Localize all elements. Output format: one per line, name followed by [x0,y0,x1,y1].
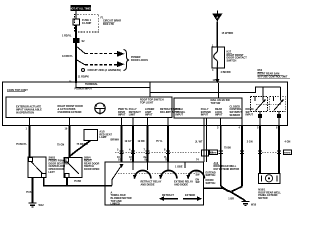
svg-text:19 RD: 19 RD [138,140,145,143]
wire from power to fuse [75,11,77,19]
label S68/4 [84,156,99,171]
double wire col 5 [195,126,214,162]
connector triangle A [212,11,222,22]
svg-text:75 BK/RD: 75 BK/RD [77,143,89,146]
label M10 [258,189,281,200]
wire lamp to switch [69,140,90,156]
inner box A [6,97,172,118]
svg-text:4 GN: 4 GN [285,141,291,144]
control unit outer box [3,82,288,126]
roof box text retract relay [141,181,162,187]
svg-text:OVERRIDE EXTEND: OVERRIDE EXTEND [58,111,82,114]
text right of roof box [206,171,216,185]
motor M10 box [258,173,280,183]
svg-text:POWER INPUT: POWER INPUT [75,88,93,91]
roof box text bottom left [111,191,132,205]
svg-text:75 YL: 75 YL [156,140,163,143]
wire col 2 [125,126,134,162]
svg-text:AND DIODE: AND DIODE [174,183,188,186]
switch S1 dashed [251,97,268,112]
roof box text extend relay [174,181,193,187]
wire branch arrow 2 [76,60,125,68]
brace power door locks [124,50,149,71]
arrow extend [183,194,202,201]
ground W12 [29,203,45,207]
fuse F1 dashed box [73,14,99,32]
svg-text:INPUT: INPUT [145,114,153,117]
wire right 2 [240,126,253,187]
link dashed in roof box [118,172,196,174]
label K27 right front door contact switch [227,51,248,63]
pin label col 1 [118,108,128,117]
wire to door switch S68/3 [16,126,30,158]
wire branch arrow 1 [76,46,125,57]
svg-text:75 BR: 75 BR [74,180,81,183]
svg-text:W12: W12 [39,204,45,207]
dashed link right connector [262,151,277,153]
wire col 4 [156,126,168,162]
svg-text:1 OBE: 1 OBE [175,166,183,169]
svg-text:SWITCH: SWITCH [206,182,216,185]
svg-text:11 RD/PK: 11 RD/PK [78,75,89,78]
label N52 right rear control unit [258,69,291,78]
wire W1 down from fuse [75,25,77,83]
wire right 4 [277,126,292,174]
box B text rear lock [215,108,223,117]
pin label col 3 [145,108,154,117]
inner box B [174,98,242,118]
svg-text:13 RD/YL: 13 RD/YL [62,55,73,58]
svg-text:DOOR OPEN: DOOR OPEN [84,168,99,171]
svg-text:INPUT: INPUT [118,114,126,117]
label S68/3 [49,156,69,173]
svg-text:BR/WH: BR/WH [111,139,120,142]
svg-text:10 AMP: 10 AMP [82,21,92,25]
svg-text:INPUT: INPUT [246,114,254,117]
svg-text:HOT AT ALL TIMES: HOT AT ALL TIMES [70,7,92,10]
mechanical link dashed [256,103,281,105]
arrow retract [159,194,178,201]
svg-text:1 BR: 1 BR [228,197,234,200]
relay arc 3 [187,170,205,179]
svg-text:75 BR: 75 BR [26,191,33,194]
wire from switch S1 left [241,111,243,126]
box B text fully extend [201,108,211,117]
svg-text:EXTEND: EXTEND [185,194,195,197]
svg-text:LIMIT: LIMIT [129,114,136,117]
box A text right front door [58,105,83,114]
svg-text:1 RD/YL: 1 RD/YL [62,35,72,38]
door switch S68/4 [64,158,82,178]
svg-text:75 GN: 75 GN [57,144,64,147]
wire right 1 [210,126,232,187]
svg-text:SWITCH: SWITCH [206,174,216,177]
svg-text:SWITCH: SWITCH [227,59,237,62]
svg-text:4 BK/RD: 4 BK/RD [221,71,231,74]
power label HOT AT ALL TIMES [70,5,92,11]
svg-text:DOOR LOCKS: DOOR LOCKS [131,59,148,62]
svg-text:JL WT: JL WT [195,141,203,144]
svg-text:75 BK/YL: 75 BK/YL [16,143,27,146]
svg-text:TERMINAL: TERMINAL [85,83,98,86]
junction to ground [204,186,246,202]
wire to door switch S68/4 [57,126,69,158]
wire right 3 [258,126,262,174]
svg-text:LEFT: LEFT [49,171,56,174]
door switch S68/3 [28,157,46,178]
switch S2 dashed [270,97,286,112]
svg-text:TOP SW: TOP SW [211,102,221,105]
wire switches to box [43,178,112,186]
svg-text:MOTOR: MOTOR [258,197,267,200]
svg-text:CIRCUIT 2000 (A HARNESS): CIRCUIT 2000 (A HARNESS) [88,69,122,72]
svg-text:CONV TOP CONT: CONV TOP CONT [7,89,28,92]
splice S2 [73,38,85,43]
pin labels control box bottom right [217,127,278,130]
svg-text:SENSOR: SENSOR [230,114,241,117]
pin label col 4 [160,108,183,114]
pin labels roof box top [118,159,199,162]
svg-text:WHITE: WHITE [284,153,291,155]
svg-text:W10: W10 [251,203,257,206]
control unit label [7,89,28,92]
wire stubs into roof box [133,162,185,170]
circuit breaker K27 [212,47,225,68]
box B text closed control [230,105,243,116]
box A text exterior actuate [16,106,42,115]
logo circle [95,103,105,115]
ground wire left [26,178,33,204]
svg-text:BOX LTD: BOX LTD [103,23,114,26]
lamp box A1e5 [84,129,113,140]
svg-text:AND DIODE: AND DIODE [141,183,155,186]
roof box text right side [196,171,201,185]
wire col 3 [138,126,148,162]
svg-text:M17 EXTEND MOTOR: M17 EXTEND MOTOR [214,168,240,171]
box B text header [211,99,231,105]
wire from breaker into control unit [213,68,220,83]
svg-text:CIRCUIT BRKR: CIRCUIT BRKR [103,20,121,23]
text col right of box B [246,108,254,117]
wire col 1 [111,126,122,162]
label C1 circuit breaker box [101,17,122,27]
svg-text:15 WT/RD: 15 WT/RD [222,32,234,35]
svg-text:2 GN: 2 GN [247,141,253,144]
switch in roof box [112,164,124,185]
svg-text:SW: SW [196,181,201,184]
relay arc 1 [133,171,151,180]
svg-text:W/ FUSE CONTROL UNIT: W/ FUSE CONTROL UNIT [258,76,288,79]
svg-text:WHITE: WHITE [210,153,217,155]
svg-text:INPUT: INPUT [201,114,209,117]
pin stubs through bottom edge [30,118,280,126]
svg-text:SW: SW [196,173,201,176]
wire 14 into box B [218,83,220,98]
svg-text:INPUT: INPUT [176,114,184,117]
ground W10 [242,202,257,207]
pin square P1 [258,112,262,119]
svg-text:7L: 7L [165,159,168,162]
svg-text:6Y: 6Y [130,159,133,162]
svg-text:LINKED: LINKED [111,203,121,206]
node circuit 2000 [82,69,122,73]
pin square P2 [277,112,281,119]
box A text top switch light [140,99,164,105]
wire to breaker [216,22,218,48]
box B text pas travel [176,108,186,117]
relay arc 2 [159,170,177,179]
internal bus wire [76,83,280,97]
pin 4 / label 4 BK/RD [212,69,231,74]
svg-text:TOP LIGHT: TOP LIGHT [140,102,154,105]
svg-text:19 GY: 19 GY [125,140,132,143]
connector row dashed [115,148,200,159]
svg-text:75 BK: 75 BK [224,147,231,150]
svg-text:IN OPERATION: IN OPERATION [16,112,34,115]
pin label col 2 [129,108,141,117]
svg-text:LAMP: LAMP [99,136,106,139]
wire from box B bottom [220,118,222,126]
svg-text:INPUT: INPUT [215,114,223,117]
label A13 [214,162,240,171]
